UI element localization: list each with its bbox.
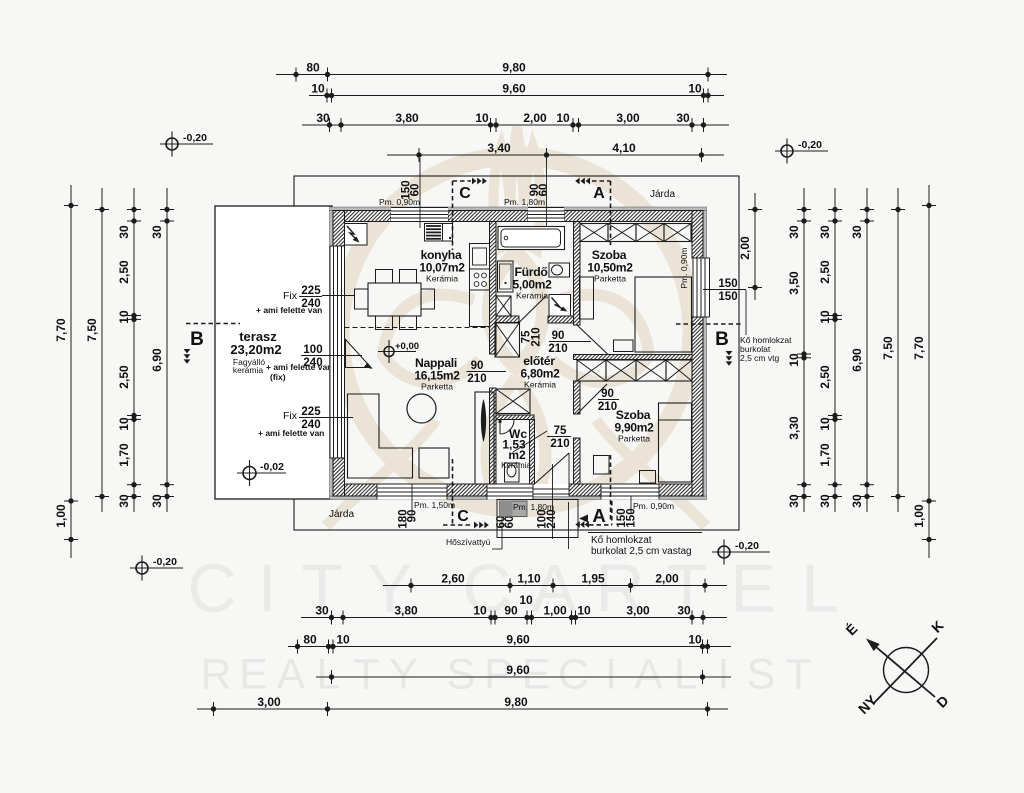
- svg-text:6,90: 6,90: [150, 348, 164, 372]
- svg-text:10: 10: [577, 604, 591, 618]
- svg-text:L: L: [801, 551, 839, 627]
- svg-text:10: 10: [519, 593, 533, 607]
- svg-text:80: 80: [306, 61, 320, 75]
- svg-text:3,80: 3,80: [395, 111, 419, 125]
- svg-text:-0,02: -0,02: [260, 461, 284, 473]
- svg-text:2,5 cm vtg: 2,5 cm vtg: [740, 353, 779, 363]
- svg-text:+0,00: +0,00: [395, 341, 419, 352]
- svg-text:10: 10: [556, 111, 570, 125]
- svg-text:225: 225: [301, 285, 321, 297]
- svg-text:2,50: 2,50: [117, 365, 131, 389]
- svg-text:A: A: [593, 185, 605, 202]
- svg-text:3,80: 3,80: [394, 604, 418, 618]
- svg-text:Pm. 1,50m: Pm. 1,50m: [414, 500, 455, 510]
- svg-text:150: 150: [718, 291, 737, 303]
- svg-text:2,50: 2,50: [818, 260, 832, 284]
- svg-text:C: C: [187, 551, 236, 627]
- svg-text:Parketta: Parketta: [594, 274, 626, 284]
- svg-text:B: B: [715, 329, 729, 350]
- svg-text:S: S: [447, 651, 476, 699]
- svg-text:A: A: [592, 505, 605, 526]
- svg-text:T: T: [785, 651, 811, 699]
- svg-text:1,00: 1,00: [912, 504, 926, 528]
- svg-text:Kő homlokzat: Kő homlokzat: [591, 535, 652, 546]
- svg-text:225: 225: [301, 406, 321, 418]
- svg-text:9,80: 9,80: [504, 695, 528, 709]
- svg-text:10: 10: [475, 111, 489, 125]
- svg-text:6,90: 6,90: [850, 348, 864, 372]
- svg-text:E: E: [730, 551, 775, 627]
- svg-text:2,00: 2,00: [655, 572, 679, 586]
- svg-text:30: 30: [818, 494, 832, 508]
- svg-text:4,10: 4,10: [612, 141, 636, 155]
- svg-text:kerámia: kerámia: [233, 365, 264, 375]
- svg-text:60: 60: [538, 184, 550, 197]
- svg-text:3,00: 3,00: [257, 695, 281, 709]
- svg-text:10: 10: [473, 604, 487, 618]
- svg-text:60: 60: [504, 516, 516, 529]
- svg-text:S: S: [747, 651, 776, 699]
- svg-text:L: L: [317, 651, 341, 699]
- svg-text:Fix: Fix: [283, 410, 298, 422]
- svg-text:Járda: Járda: [650, 189, 675, 200]
- svg-text:I: I: [718, 651, 730, 699]
- svg-text:90: 90: [471, 360, 484, 372]
- svg-text:10: 10: [818, 310, 832, 324]
- svg-text:210: 210: [531, 327, 543, 346]
- svg-text:10: 10: [688, 82, 702, 96]
- svg-text:7,50: 7,50: [85, 318, 99, 342]
- svg-text:240: 240: [546, 509, 558, 528]
- svg-text:+ ami felette van: + ami felette van: [256, 305, 322, 315]
- svg-text:30: 30: [316, 111, 330, 125]
- svg-text:150: 150: [626, 508, 638, 527]
- svg-text:1,95: 1,95: [581, 572, 605, 586]
- svg-text:10,07m2: 10,07m2: [419, 261, 465, 275]
- svg-text:7,50: 7,50: [881, 336, 895, 360]
- svg-text:9,90m2: 9,90m2: [615, 421, 655, 435]
- svg-text:1,00: 1,00: [543, 604, 567, 618]
- svg-text:B: B: [190, 329, 204, 350]
- svg-text:30: 30: [117, 225, 131, 239]
- svg-text:Kerámia: Kerámia: [516, 291, 548, 301]
- svg-text:3,30: 3,30: [787, 416, 801, 440]
- svg-text:1,70: 1,70: [818, 443, 832, 467]
- svg-text:30: 30: [818, 225, 832, 239]
- svg-text:3,50: 3,50: [787, 271, 801, 295]
- svg-text:10: 10: [117, 417, 131, 431]
- svg-text:m2: m2: [508, 448, 526, 462]
- svg-text:7,70: 7,70: [912, 336, 926, 360]
- svg-text:Parketta: Parketta: [421, 382, 453, 392]
- svg-text:T: T: [353, 651, 379, 699]
- svg-text:240: 240: [303, 357, 322, 369]
- svg-text:C: C: [558, 651, 589, 699]
- svg-text:10: 10: [787, 353, 801, 367]
- svg-text:2,00: 2,00: [738, 236, 752, 260]
- svg-text:10,50m2: 10,50m2: [587, 261, 633, 275]
- svg-text:30: 30: [787, 494, 801, 508]
- svg-text:30: 30: [850, 225, 864, 239]
- svg-text:2,60: 2,60: [441, 572, 465, 586]
- svg-text:2,50: 2,50: [117, 260, 131, 284]
- svg-text:A: A: [634, 651, 663, 699]
- svg-text:10: 10: [336, 633, 350, 647]
- svg-text:Hőszívattyú: Hőszívattyú: [446, 537, 491, 547]
- svg-text:30: 30: [677, 604, 691, 618]
- svg-text:30: 30: [150, 225, 164, 239]
- svg-text:100: 100: [303, 344, 322, 356]
- svg-text:I: I: [605, 651, 617, 699]
- svg-text:30: 30: [315, 604, 329, 618]
- svg-text:10: 10: [688, 633, 702, 647]
- svg-text:Járda: Járda: [329, 509, 354, 520]
- svg-text:23,20m2: 23,20m2: [230, 342, 281, 357]
- svg-text:L: L: [674, 651, 698, 699]
- svg-text:80: 80: [303, 633, 317, 647]
- svg-text:30: 30: [850, 494, 864, 508]
- svg-text:E: E: [239, 651, 268, 699]
- svg-text:-0,20: -0,20: [798, 139, 822, 151]
- svg-text:16,15m2: 16,15m2: [414, 369, 460, 383]
- svg-text:9,80: 9,80: [502, 61, 526, 75]
- svg-text:Kerámia: Kerámia: [501, 461, 531, 470]
- svg-text:Pm. 0,90m: Pm. 0,90m: [679, 247, 689, 288]
- svg-text:210: 210: [598, 401, 617, 413]
- svg-text:burkolat 2,5 cm vastag: burkolat 2,5 cm vastag: [591, 546, 692, 557]
- svg-text:2,50: 2,50: [818, 365, 832, 389]
- svg-text:9,60: 9,60: [502, 82, 526, 96]
- svg-text:30: 30: [150, 494, 164, 508]
- svg-text:C: C: [459, 185, 471, 202]
- svg-text:Y: Y: [389, 651, 418, 699]
- svg-text:1,70: 1,70: [117, 443, 131, 467]
- svg-text:210: 210: [467, 373, 486, 385]
- svg-text:30: 30: [676, 111, 690, 125]
- svg-text:210: 210: [550, 438, 569, 450]
- svg-text:(fix): (fix): [270, 372, 286, 382]
- svg-text:210: 210: [548, 343, 567, 355]
- svg-text:-0,20: -0,20: [735, 540, 759, 552]
- svg-text:90: 90: [504, 604, 518, 618]
- svg-text:Kerámia: Kerámia: [524, 380, 556, 390]
- svg-text:10: 10: [117, 310, 131, 324]
- svg-text:30: 30: [787, 225, 801, 239]
- svg-text:C: C: [457, 508, 469, 525]
- svg-text:Parketta: Parketta: [618, 434, 650, 444]
- svg-text:9,60: 9,60: [506, 663, 530, 677]
- svg-text:10: 10: [818, 417, 832, 431]
- svg-text:150: 150: [718, 278, 737, 290]
- svg-text:3,00: 3,00: [626, 604, 650, 618]
- svg-text:-0,20: -0,20: [153, 556, 177, 568]
- svg-text:10: 10: [311, 82, 325, 96]
- svg-text:90: 90: [407, 510, 419, 523]
- svg-text:Fix: Fix: [283, 290, 298, 302]
- svg-text:7,70: 7,70: [54, 318, 68, 342]
- svg-text:A: A: [277, 651, 306, 699]
- svg-text:Pm. 0,90m: Pm. 0,90m: [633, 501, 674, 511]
- svg-text:Pm. 1,80m: Pm. 1,80m: [513, 502, 554, 512]
- svg-text:I: I: [258, 551, 277, 627]
- svg-text:+ ami felette van: + ami felette van: [258, 428, 324, 438]
- svg-text:Pm. 1,80m: Pm. 1,80m: [504, 197, 545, 207]
- svg-text:75: 75: [554, 425, 567, 437]
- svg-text:90: 90: [601, 388, 614, 400]
- svg-text:90: 90: [552, 330, 565, 342]
- svg-text:-0,20: -0,20: [183, 132, 207, 144]
- svg-text:6,80m2: 6,80m2: [521, 367, 561, 381]
- svg-text:3,40: 3,40: [487, 141, 511, 155]
- svg-text:1,10: 1,10: [517, 572, 541, 586]
- svg-text:30: 30: [117, 494, 131, 508]
- svg-text:Kerámia: Kerámia: [426, 274, 458, 284]
- svg-text:2,00: 2,00: [523, 111, 547, 125]
- svg-text:5,00m2: 5,00m2: [513, 278, 553, 292]
- svg-text:R: R: [200, 651, 231, 699]
- svg-text:9,60: 9,60: [506, 633, 530, 647]
- svg-text:3,00: 3,00: [616, 111, 640, 125]
- svg-text:1,00: 1,00: [54, 504, 68, 528]
